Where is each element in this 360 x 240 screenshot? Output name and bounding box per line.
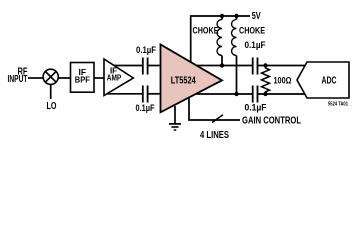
capacitor C3 0.1uF (output top) xyxy=(253,58,258,75)
wire gain control bus xyxy=(189,97,240,120)
capacitor C1 0.1uF (input top) xyxy=(143,58,148,75)
svg-text:0.1µF: 0.1µF xyxy=(136,45,156,55)
wire IF AMP bottom output to C2 xyxy=(108,93,143,95)
junction dot R1 bottom xyxy=(263,92,267,96)
wire C2 to LT5524 input bottom xyxy=(148,93,161,95)
inductor L1 CHOKE xyxy=(217,20,222,56)
svg-text:CHOKE: CHOKE xyxy=(239,25,265,35)
wire IF BPF to IF AMP xyxy=(94,77,104,79)
svg-text:0.1µF: 0.1µF xyxy=(245,103,267,113)
svg-text:ADC: ADC xyxy=(322,75,337,86)
svg-text:0.1µF: 0.1µF xyxy=(245,40,266,50)
inductor L2 CHOKE xyxy=(232,20,237,56)
wire choke L1 bottom to top output xyxy=(221,16,223,66)
svg-text:LO: LO xyxy=(47,101,57,112)
svg-text:CHOKE: CHOKE xyxy=(193,25,219,35)
wire C1 to LT5524 input top xyxy=(148,65,161,67)
op-amp U1 LT5524 xyxy=(161,45,223,113)
bus slash 4 lines xyxy=(212,115,223,123)
junction dot R1 top xyxy=(263,63,267,67)
svg-text:GAIN CONTROL: GAIN CONTROL xyxy=(242,115,301,126)
filter IF BPF xyxy=(71,63,95,93)
capacitor C4 0.1uF (output bottom) xyxy=(253,86,258,103)
mixer M1 xyxy=(43,69,58,84)
wire 5V rail with VCC drop xyxy=(191,16,250,63)
resistor R1 100 ohm xyxy=(262,66,270,95)
wire IF AMP top output to C1 xyxy=(114,65,143,67)
wire ground stem xyxy=(174,106,176,124)
svg-text:AMP: AMP xyxy=(107,73,122,82)
ground xyxy=(169,124,181,130)
wire LO stem xyxy=(50,85,52,99)
wire LT5524 top output to C3 xyxy=(197,65,252,67)
wire RF input to mixer xyxy=(28,77,44,79)
amplifier IF AMP xyxy=(104,59,133,96)
junction dot rail-L2 xyxy=(234,14,238,18)
junction dot L1-top wire xyxy=(220,63,224,67)
wire C3 to ADC top xyxy=(258,65,305,67)
wire LT5524 bottom output to C4 xyxy=(196,93,252,95)
wire mixer to IF BPF xyxy=(58,77,71,79)
svg-text:100Ω: 100Ω xyxy=(274,75,292,86)
svg-text:BPF: BPF xyxy=(75,75,90,85)
ADC block xyxy=(297,62,349,98)
svg-text:4 LINES: 4 LINES xyxy=(200,130,229,141)
junction dot rail-L1 xyxy=(220,14,224,18)
capacitor C2 0.1uF (input bottom) xyxy=(143,86,148,103)
junction dot L2-bottom wire xyxy=(234,92,238,96)
svg-text:5524 TA01: 5524 TA01 xyxy=(328,102,348,108)
wire C4 to ADC bottom xyxy=(258,93,305,95)
svg-text:0.1µF: 0.1µF xyxy=(136,103,155,113)
wire choke L2 bottom to bottom output xyxy=(236,16,238,94)
svg-text:LT5524: LT5524 xyxy=(171,74,196,86)
svg-text:5V: 5V xyxy=(252,11,261,22)
svg-text:INPUT: INPUT xyxy=(8,74,28,85)
